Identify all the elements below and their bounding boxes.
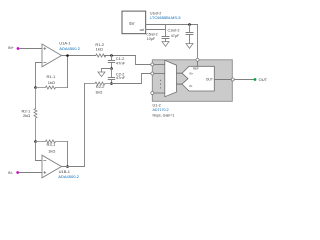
capacitor C1-2 <box>108 56 114 69</box>
svg-text:AD7170-2: AD7170-2 <box>153 108 169 112</box>
svg-text:47nF: 47nF <box>116 75 126 80</box>
wire IN+ to U1A noninverting input <box>19 48 41 50</box>
wire U1B output <box>62 166 85 168</box>
svg-text:1kΩ: 1kΩ <box>96 47 103 52</box>
resistor R1-1 <box>36 86 68 89</box>
ADC REF pin circle <box>196 58 199 61</box>
svg-text:IN+: IN+ <box>189 72 194 75</box>
wire R3-1 to U1B output <box>67 142 69 167</box>
node reference junction <box>188 23 191 26</box>
capacitor C2-2 <box>108 69 114 84</box>
svg-text:47µF: 47µF <box>171 34 180 38</box>
node IN- terminal dot <box>16 171 19 174</box>
ground C5ref-2 <box>162 42 169 47</box>
wire node A to U1B inverting input <box>36 142 42 161</box>
wire modulator to ADC out pin <box>214 79 232 81</box>
wire ADC pin2 to mux <box>154 73 165 75</box>
op-amp U1B-1 plus marker <box>44 171 46 173</box>
node C2-2 bottom junction <box>110 82 113 85</box>
svg-text:1kΩ: 1kΩ <box>48 149 55 154</box>
wire 5V box out pin <box>146 25 166 30</box>
node OUT terminal dot <box>254 78 257 81</box>
svg-text:1kΩ: 1kΩ <box>95 90 102 95</box>
op-amp U1B-1 minus marker <box>44 160 46 162</box>
wire to mid ground <box>102 69 112 73</box>
op-amp U1A-1 minus marker <box>44 62 46 64</box>
wire IN- to U1B noninverting input <box>19 172 42 174</box>
svg-text:R2-2: R2-2 <box>96 84 105 89</box>
svg-text:ADA4500-2: ADA4500-2 <box>58 174 79 179</box>
capacitor C5ref-2 <box>162 30 169 42</box>
svg-text:C5ref-2: C5ref-2 <box>146 32 157 36</box>
svg-text:IN-: IN- <box>189 85 193 88</box>
ADC modulator pentagon <box>182 66 214 91</box>
ADC OUT pin circle <box>231 78 234 81</box>
svg-text:C1ref-2: C1ref-2 <box>168 28 180 32</box>
svg-text:LTC6655BLMS-5: LTC6655BLMS-5 <box>150 15 181 20</box>
svg-text:REF: REF <box>193 67 199 71</box>
svg-text:U1-2: U1-2 <box>153 103 161 107</box>
wire R1-2 to ADC pin1 with step <box>104 56 151 65</box>
ADC U1-2 body <box>152 60 232 102</box>
wire mux to modulator bottom <box>177 83 183 85</box>
wire ADC pin3 to mux <box>154 92 165 94</box>
wire U1A inverting input to feedback node <box>36 63 42 88</box>
wire reference down to ADC REF pin <box>197 25 199 59</box>
node IN+ terminal dot <box>17 47 20 50</box>
ADC modulator REF pin stub <box>197 60 199 67</box>
node A lower feedback junction <box>34 140 37 143</box>
svg-text:OUT: OUT <box>206 77 213 81</box>
svg-text:47nF: 47nF <box>116 60 126 65</box>
svg-text:U1A-1: U1A-1 <box>59 41 71 46</box>
resistor R3-1 <box>36 140 68 143</box>
node U1B output junction <box>66 165 69 168</box>
svg-text:OUT: OUT <box>259 77 268 82</box>
wire ADC pin1 to mux <box>154 64 165 66</box>
op-amp U1A-1 plus marker <box>44 47 46 49</box>
node between C1-2 and C2-2 <box>110 67 113 70</box>
wire U1B output column to R2-2 <box>84 84 86 167</box>
ADC pin2 circle <box>151 72 154 75</box>
ADC mux channel dots <box>160 80 161 81</box>
voltage reference input box 5V <box>122 11 146 34</box>
svg-text:out: out <box>140 28 145 32</box>
wire U1A output to R1-2 <box>62 55 96 57</box>
resistor R2-1 vertical <box>34 88 37 142</box>
ADC pin3 circle <box>151 92 154 95</box>
wire mux to modulator top <box>177 72 183 74</box>
svg-text:1kΩ: 1kΩ <box>48 80 55 85</box>
resistor R2-2 <box>85 82 112 85</box>
svg-text:R3-1: R3-1 <box>47 142 56 147</box>
wire R1-1 to U1A output <box>67 56 69 88</box>
wire C2-2 node to ADC pin2 with step <box>112 74 151 84</box>
svg-text:IN+: IN+ <box>8 46 14 50</box>
wire ADC out to OUT terminal <box>234 79 253 81</box>
op-amp U1B-1 triangle <box>42 155 62 178</box>
svg-text:ADA4500-2: ADA4500-2 <box>59 46 80 51</box>
ground C1ref-2 <box>186 44 193 49</box>
node U1A feedback junction <box>34 86 37 89</box>
ADC pin1 circle <box>151 63 154 66</box>
resistor R1-2 <box>96 54 106 57</box>
node U1A output junction <box>66 54 69 57</box>
svg-text:2kΩ: 2kΩ <box>23 113 30 118</box>
svg-text:5V: 5V <box>129 21 134 26</box>
svg-text:10µF: 10µF <box>147 37 156 41</box>
svg-text:Nsps, Gain=1: Nsps, Gain=1 <box>153 114 175 118</box>
node R1-2 output junction <box>110 54 113 57</box>
ground mid filter <box>98 72 105 77</box>
capacitor C1ref-2 <box>186 25 193 44</box>
op-amp U1A-1 triangle <box>42 44 62 67</box>
svg-text:IN-: IN- <box>8 171 14 175</box>
wire 5V box upper output to REF column <box>146 24 198 26</box>
svg-text:R1-1: R1-1 <box>47 74 56 79</box>
ADC input mux trapezoid <box>165 60 177 96</box>
